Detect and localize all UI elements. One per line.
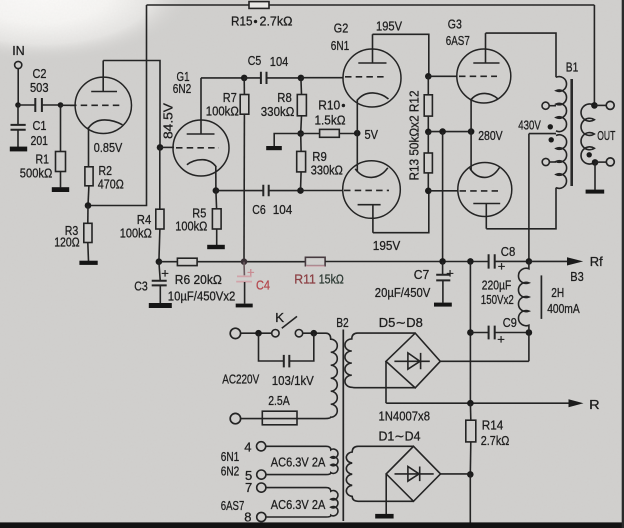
- svg-text:2H: 2H: [551, 285, 564, 300]
- svg-text:R6 20kΩ: R6 20kΩ: [175, 272, 222, 287]
- wire 5V node to V4 cathode: [356, 133, 358, 171]
- svg-text:+: +: [497, 332, 505, 347]
- tube V1 plate: [91, 61, 117, 92]
- ground under D1-D4: [375, 514, 393, 519]
- terminal B1 tap lower: [549, 161, 556, 163]
- transformer B1 primary winding upper: [556, 77, 567, 132]
- capacitor C7: [442, 261, 444, 302]
- svg-text:D1∼D4: D1∼D4: [379, 429, 421, 444]
- svg-text:K: K: [275, 310, 284, 325]
- wire C5 node to V3 grid: [301, 77, 344, 79]
- node B+ drop junction: [439, 128, 446, 135]
- terminal IN: [15, 61, 22, 68]
- capacitor C8: [489, 254, 495, 268]
- tube V6 plate: [473, 204, 500, 229]
- node AC/snubber junction: [255, 330, 262, 337]
- resistor R5: [215, 191, 218, 209]
- wire 430V vertical to bus: [528, 134, 530, 262]
- svg-text:201: 201: [31, 133, 49, 148]
- svg-text:C1: C1: [33, 118, 47, 133]
- svg-text:C6: C6: [252, 202, 265, 217]
- terminal AC220V lower: [230, 413, 240, 423]
- tube V4 grid (dashed): [344, 189, 389, 191]
- tube V5 plate: [473, 33, 499, 63]
- node R13 bottom junction: [425, 188, 432, 195]
- wire V2 grid lead: [160, 146, 174, 148]
- wire to OUT upper terminal: [594, 104, 606, 106]
- svg-text:503: 503: [30, 80, 49, 95]
- terminal heater pin 4: [257, 442, 266, 451]
- svg-text:6AS7: 6AS7: [446, 33, 470, 48]
- capacitor C4 (red addition): [243, 262, 245, 276]
- wire V3 cathode to 5V node: [356, 100, 358, 134]
- wire D5-D8 minus corner down to R line: [385, 361, 387, 403]
- svg-text:120Ω: 120Ω: [54, 235, 80, 250]
- bottom black bar: [0, 522, 624, 528]
- resistor R8: [300, 78, 303, 95]
- resistor R12: [427, 76, 429, 95]
- svg-text:+: +: [247, 265, 255, 280]
- node B1 secondary bottom junction: [592, 159, 599, 166]
- svg-text:+: +: [446, 266, 454, 281]
- wire switch to B2 primary: [303, 332, 326, 334]
- choke B3 core bar: [540, 275, 542, 319]
- svg-text:OUT: OUT: [597, 128, 615, 143]
- svg-text:B3: B3: [570, 269, 584, 284]
- B1 phase dot upper: [548, 124, 553, 129]
- resistor R2: [85, 167, 93, 186]
- wire V1 plate to V2 grid node: [103, 61, 160, 148]
- wire V5 plate to B1 primary top: [486, 33, 557, 77]
- wire secondary bottom to ground: [594, 162, 596, 189]
- svg-text:220µF: 220µF: [482, 278, 512, 293]
- resistor R3: [87, 206, 89, 224]
- node R8/R9/R10 junction: [297, 130, 304, 137]
- wire bus segment 4: [495, 260, 529, 262]
- resistor R11 (red addition): [305, 257, 325, 265]
- svg-text:100kΩ: 100kΩ: [206, 104, 239, 119]
- resistor R13: [427, 132, 429, 153]
- transformer B1 primary winding lower: [556, 135, 567, 189]
- svg-text:103/1kV: 103/1kV: [272, 373, 314, 388]
- svg-text:2.7kΩ: 2.7kΩ: [481, 433, 510, 448]
- terminal B1 tap upper: [549, 105, 556, 107]
- svg-text:104: 104: [273, 202, 293, 217]
- capacitor C9: [470, 332, 529, 334]
- node 5V junction: [354, 130, 361, 137]
- transformer B2 core: [342, 330, 344, 522]
- wire V3 plate to R12 top: [373, 34, 429, 76]
- switch K left contact: [272, 330, 279, 337]
- node bus left junction: [156, 258, 163, 265]
- ground under C1: [10, 147, 27, 152]
- bridge rectifier D1-D4 diamond: [386, 446, 440, 501]
- capacitor C1: [17, 105, 19, 147]
- wire bus segment 1: [159, 261, 178, 263]
- capacitor 103/1kV snubber loop: [259, 333, 314, 361]
- node D1-D4 output junction: [467, 471, 474, 478]
- node B3 top junction: [526, 258, 533, 265]
- wire V5 cathode lead: [470, 100, 472, 132]
- svg-text:330kΩ: 330kΩ: [261, 104, 295, 119]
- ground under R5: [207, 245, 225, 249]
- ground under R1: [52, 187, 69, 192]
- node C5 right junction: [298, 75, 305, 82]
- wire D1-D4 minus corner to ground: [385, 474, 387, 514]
- capacitor C3: [159, 262, 160, 304]
- svg-text:R14: R14: [482, 418, 504, 433]
- wire to V6 cathode lead: [470, 132, 472, 171]
- tube V2 (6N2 second half) envelope: [173, 120, 229, 176]
- terminal AC220V upper: [230, 328, 240, 338]
- wire 280V line: [428, 131, 471, 133]
- node C6/cathode junction: [213, 187, 220, 194]
- svg-text:+: +: [498, 259, 506, 274]
- wire B+ vertical to bus: [442, 132, 444, 262]
- tube V3 grid (dashed): [345, 76, 386, 78]
- arrow Rf: [567, 257, 583, 265]
- wire V2 cathode to C6 node: [215, 166, 217, 191]
- wire filter cap vertical: [469, 261, 471, 403]
- ground under C4: [236, 304, 253, 308]
- svg-text:500kΩ: 500kΩ: [20, 166, 53, 181]
- svg-text:1N4007x8: 1N4007x8: [379, 409, 431, 424]
- wire AC to switch: [241, 332, 272, 334]
- tube V2 grid (dashed): [176, 147, 219, 149]
- wire V1 grid lead: [61, 104, 76, 106]
- terminal OUT upper: [606, 101, 614, 109]
- tube V5 cathode: [470, 93, 498, 100]
- svg-text:6AS7: 6AS7: [221, 498, 245, 513]
- ground near R8: [266, 146, 282, 150]
- switch K right contact: [295, 330, 302, 337]
- svg-text:C7: C7: [414, 267, 430, 282]
- svg-text:IN: IN: [12, 43, 25, 58]
- resistor R9: [300, 134, 302, 152]
- svg-text:4: 4: [244, 440, 251, 455]
- tube V6 cathode (inverted): [470, 168, 500, 178]
- svg-text:C4: C4: [256, 278, 270, 293]
- wire bus segment 3: [325, 261, 488, 263]
- diode D1-D4 symbol: [395, 467, 434, 482]
- tube V4 (6N1 lower) envelope: [343, 161, 401, 219]
- terminal heater pin 7: [257, 483, 266, 492]
- svg-text:D5∼D8: D5∼D8: [379, 315, 423, 330]
- wire feedback left drop to R2/R3 node: [88, 5, 147, 206]
- node filter cap top junction: [467, 258, 474, 265]
- tube V3 plate: [358, 34, 386, 63]
- svg-text:150Vx2: 150Vx2: [481, 292, 514, 307]
- svg-text:R13 50kΩx2 R12: R13 50kΩx2 R12: [407, 91, 422, 181]
- svg-text:8: 8: [244, 510, 251, 525]
- node V5 cathode junction: [468, 128, 475, 135]
- transformer B2 HV winding lower: [346, 446, 413, 501]
- svg-text:104: 104: [270, 54, 289, 69]
- tube V4 cathode (inverted): [355, 168, 388, 178]
- R10 bullet: [342, 104, 345, 107]
- capacitor C6: [216, 190, 301, 192]
- capacitor C2: [18, 104, 61, 106]
- svg-text:C2: C2: [33, 66, 47, 81]
- resistor R10: [301, 133, 320, 135]
- svg-text:84.5V: 84.5V: [161, 103, 176, 139]
- resistor R1: [60, 105, 62, 152]
- tube V3 cathode: [357, 93, 389, 101]
- node C7 top junction: [439, 258, 446, 265]
- node R14 top junction: [467, 400, 474, 407]
- svg-text:100kΩ: 100kΩ: [175, 219, 207, 234]
- wire to bottom edge: [469, 474, 471, 522]
- tube V2 plate: [187, 78, 215, 134]
- node input junction: [15, 102, 21, 108]
- svg-text:2.7kΩ: 2.7kΩ: [260, 14, 293, 29]
- tube V1 cathode: [88, 120, 122, 128]
- node R7 bottom junction: [241, 258, 248, 265]
- wire bus to Rf arrow: [529, 260, 579, 262]
- tube V6 grid (dashed): [460, 190, 499, 192]
- wire feedback right drop to B1 secondary top: [593, 5, 595, 105]
- terminal OUT lower: [606, 158, 614, 166]
- svg-text:G2: G2: [334, 21, 349, 36]
- svg-text:6N1: 6N1: [331, 38, 350, 53]
- svg-text:15kΩ: 15kΩ: [319, 272, 344, 287]
- R15 bullet: [254, 20, 257, 23]
- wire V5 grid lead: [428, 75, 457, 77]
- diode D5-D8 symbol: [394, 353, 429, 369]
- resistor R6: [177, 258, 197, 265]
- wire C6 node to V4 grid: [301, 190, 344, 192]
- node snubber right junction: [311, 330, 318, 337]
- svg-text:Rf: Rf: [590, 254, 603, 269]
- wire B1 centre tap 430V: [529, 133, 556, 135]
- heater winding 6N1/6N2: [266, 446, 338, 474]
- svg-text:AC6.3V 2A: AC6.3V 2A: [271, 497, 326, 512]
- svg-text:100kΩ: 100kΩ: [120, 226, 152, 241]
- tube V2 cathode: [187, 160, 216, 167]
- svg-text:R1: R1: [36, 152, 50, 167]
- svg-text:7: 7: [245, 480, 252, 495]
- terminal heater pin 5: [257, 470, 266, 479]
- node R12 top junction: [425, 73, 432, 80]
- wire rectifier output to B3: [440, 360, 529, 362]
- svg-text:430V: 430V: [518, 118, 541, 133]
- node grid V1 junction: [58, 102, 64, 108]
- wire fuse line: [241, 418, 325, 420]
- transformer B1 secondary winding: [581, 104, 594, 164]
- resistor R14: [469, 403, 471, 420]
- svg-text:+: +: [161, 266, 169, 281]
- tube V5 grid (dashed): [459, 75, 497, 77]
- svg-text:6N2: 6N2: [173, 81, 192, 96]
- arrow R: [569, 399, 584, 407]
- node C9 right junction: [526, 329, 533, 336]
- tube V3 (6N1 upper) envelope: [343, 49, 401, 107]
- resistor R4: [159, 147, 161, 209]
- svg-text:R8: R8: [277, 90, 292, 105]
- choke B3 winding: [518, 261, 528, 361]
- tube V1 (6N2 first half) envelope: [75, 77, 131, 133]
- wire bus segment 2: [197, 261, 305, 263]
- svg-text:20µF/450V: 20µF/450V: [375, 285, 431, 300]
- tube V4 plate: [358, 205, 381, 233]
- svg-text:C8: C8: [501, 244, 516, 259]
- node C5 left junction: [241, 75, 248, 82]
- resistor R15: [249, 2, 269, 9]
- svg-text:C3: C3: [134, 279, 148, 294]
- transformer B2 HV winding upper: [345, 333, 415, 388]
- wire V1 cathode to R2: [88, 127, 90, 167]
- svg-text:470Ω: 470Ω: [98, 177, 124, 192]
- svg-text:0.85V: 0.85V: [94, 140, 123, 155]
- svg-text:2.5A: 2.5A: [268, 393, 290, 408]
- transformer B1 core: [570, 79, 573, 186]
- svg-text:C9: C9: [503, 315, 517, 330]
- tube V5 (6AS7 upper) envelope: [457, 49, 511, 103]
- right black border: [622, 0, 624, 528]
- ground under C7: [434, 303, 452, 307]
- switch K lever: [282, 316, 297, 328]
- node C6 right junction: [297, 187, 304, 194]
- wire IN to C2/C1 node: [17, 69, 19, 105]
- capacitor C5: [244, 77, 301, 79]
- svg-text:10µF/450Vx2: 10µF/450Vx2: [168, 289, 236, 304]
- svg-text:5V: 5V: [365, 127, 379, 142]
- node R12/R13 mid junction: [425, 129, 432, 136]
- svg-text:R15: R15: [231, 14, 253, 29]
- resistor R7: [243, 78, 245, 95]
- ground under R3: [79, 261, 97, 265]
- wire V6 grid lead: [428, 190, 458, 192]
- node R2/R3/feedback junction: [85, 202, 92, 209]
- svg-text:195V: 195V: [376, 19, 402, 34]
- node C9 left junction: [467, 329, 474, 336]
- svg-text:R10: R10: [318, 98, 340, 113]
- svg-text:400mA: 400mA: [547, 301, 580, 316]
- wire to ground stub: [274, 134, 301, 147]
- wire feedback top rail: [147, 4, 250, 6]
- svg-text:B2: B2: [336, 315, 349, 330]
- node V2 grid junction: [157, 144, 164, 151]
- ground under C3: [149, 303, 172, 308]
- wire R output line: [386, 402, 578, 404]
- wire V6 plate to B1 primary bottom: [486, 188, 556, 229]
- svg-text:330kΩ: 330kΩ: [311, 163, 343, 178]
- svg-text:6N1: 6N1: [221, 449, 240, 464]
- svg-text:G3: G3: [448, 17, 462, 32]
- tube V1 grid (dashed): [70, 104, 120, 106]
- wire V4 plate loop to R13 bottom: [373, 191, 429, 233]
- wire D1-D4 output to R14 node: [441, 473, 471, 475]
- B1 secondary phase dot: [587, 152, 592, 157]
- svg-text:195V: 195V: [373, 238, 401, 253]
- svg-text:6N2: 6N2: [221, 464, 240, 479]
- svg-text:R: R: [589, 397, 600, 412]
- wire V2 plate to C5 node: [201, 77, 244, 79]
- terminal heater pin 8: [257, 512, 266, 521]
- ground under B1 secondary: [586, 190, 605, 194]
- node B1 secondary top junction: [591, 102, 598, 109]
- heater winding 6AS7: [266, 488, 338, 517]
- svg-text:AC6.3V 2A: AC6.3V 2A: [271, 455, 326, 470]
- fuse 2.5A: [262, 411, 297, 425]
- svg-text:1.5kΩ: 1.5kΩ: [315, 113, 346, 128]
- bridge rectifier D5-D8 diamond: [386, 333, 440, 388]
- svg-text:C5: C5: [248, 53, 261, 68]
- svg-text:B1: B1: [566, 60, 579, 75]
- svg-text:R11: R11: [294, 272, 316, 287]
- tube V6 (6AS7 lower) envelope: [458, 163, 512, 217]
- svg-text:280V: 280V: [478, 128, 503, 143]
- transformer B2 primary winding: [325, 333, 337, 418]
- svg-text:AC220V: AC220V: [222, 372, 259, 387]
- B1 phase dot lower: [549, 137, 554, 142]
- wire to OUT lower terminal: [595, 161, 606, 163]
